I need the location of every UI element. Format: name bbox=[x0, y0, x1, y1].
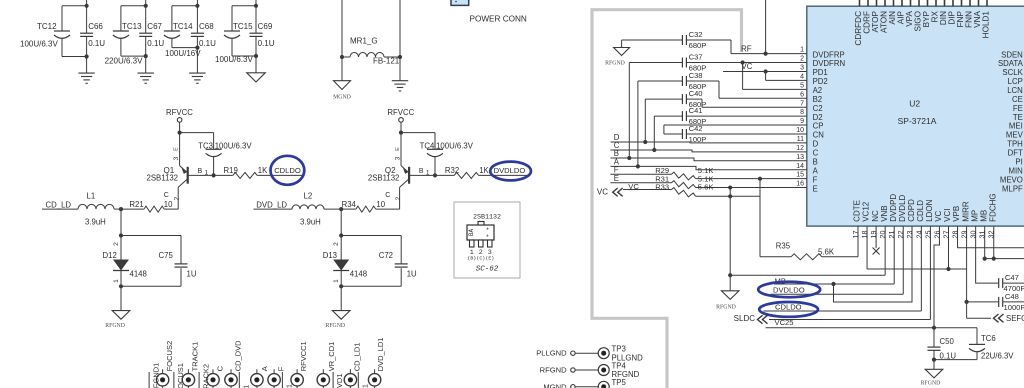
svg-text:3: 3 bbox=[395, 156, 402, 160]
svg-text:21: 21 bbox=[887, 231, 896, 239]
svg-text:(C): (C) bbox=[476, 255, 485, 261]
svg-text:C: C bbox=[385, 192, 390, 199]
svg-text:(B): (B) bbox=[467, 255, 476, 261]
svg-text:VC12: VC12 bbox=[862, 201, 871, 222]
svg-text:TC3: TC3 bbox=[198, 141, 213, 150]
svg-text:L1: L1 bbox=[87, 192, 96, 201]
svg-text:MIRR: MIRR bbox=[961, 201, 970, 222]
svg-text:C37: C37 bbox=[689, 53, 703, 62]
svg-text:POWER CONN: POWER CONN bbox=[470, 14, 527, 23]
svg-text:TC6: TC6 bbox=[981, 334, 996, 343]
svg-text:2SB1132: 2SB1132 bbox=[368, 174, 400, 183]
svg-text:100U/6.3V: 100U/6.3V bbox=[215, 55, 253, 64]
svg-text:CD_LD: CD_LD bbox=[46, 200, 72, 209]
svg-text:1K: 1K bbox=[479, 166, 489, 175]
svg-text:20: 20 bbox=[878, 231, 887, 239]
svg-text:B: B bbox=[198, 168, 203, 175]
svg-text:DVDLDO: DVDLDO bbox=[494, 166, 526, 175]
svg-text:9: 9 bbox=[800, 118, 804, 125]
svg-text:DVD_LD: DVD_LD bbox=[256, 200, 287, 209]
svg-text:MIN: MIN bbox=[1009, 166, 1023, 175]
svg-text:MR1_G: MR1_G bbox=[350, 37, 378, 46]
svg-text:B: B bbox=[419, 168, 424, 175]
svg-text:MEVO: MEVO bbox=[1000, 175, 1023, 184]
svg-text:SLDC: SLDC bbox=[734, 314, 756, 323]
svg-text:28: 28 bbox=[950, 231, 959, 239]
svg-text:100U/6.3V: 100U/6.3V bbox=[436, 141, 474, 150]
svg-text:VR_CD1: VR_CD1 bbox=[327, 342, 336, 372]
svg-text:RFVCC1: RFVCC1 bbox=[299, 341, 308, 371]
svg-text:VC: VC bbox=[742, 62, 753, 71]
svg-text:TPH: TPH bbox=[1007, 140, 1023, 149]
svg-text:DVDFRN: DVDFRN bbox=[813, 59, 846, 68]
svg-text:0.1U: 0.1U bbox=[258, 39, 275, 48]
svg-text:15: 15 bbox=[796, 172, 804, 179]
svg-text:TP3: TP3 bbox=[612, 345, 626, 354]
svg-text:MEI: MEI bbox=[1009, 122, 1023, 131]
svg-text:C32: C32 bbox=[689, 30, 703, 39]
svg-text:5.6K: 5.6K bbox=[698, 182, 714, 191]
svg-text:C: C bbox=[216, 365, 225, 371]
svg-text:C67: C67 bbox=[147, 22, 162, 31]
svg-text:R33: R33 bbox=[655, 182, 669, 191]
svg-text:SEFG: SEFG bbox=[1006, 314, 1024, 323]
svg-text:TE: TE bbox=[1013, 113, 1023, 122]
svg-text:HOLD1: HOLD1 bbox=[982, 11, 991, 39]
svg-text:8: 8 bbox=[800, 109, 804, 116]
svg-text:1: 1 bbox=[426, 169, 430, 176]
svg-text:6: 6 bbox=[800, 91, 804, 98]
svg-text:5: 5 bbox=[800, 82, 804, 89]
svg-text:3.9uH: 3.9uH bbox=[300, 217, 321, 226]
svg-text:C1: C1 bbox=[285, 384, 294, 388]
svg-text:C2: C2 bbox=[813, 104, 823, 113]
svg-text:16: 16 bbox=[796, 181, 804, 188]
svg-text:220U/6.3V: 220U/6.3V bbox=[105, 56, 143, 65]
svg-text:D13: D13 bbox=[323, 251, 337, 260]
svg-text:RFGND: RFGND bbox=[921, 380, 941, 386]
svg-text:PI: PI bbox=[1015, 157, 1022, 166]
svg-text:CD_DVD: CD_DVD bbox=[233, 340, 242, 371]
svg-text:3: 3 bbox=[173, 156, 180, 160]
svg-text:18: 18 bbox=[860, 231, 869, 239]
svg-text:D12: D12 bbox=[103, 251, 117, 260]
svg-text:C38: C38 bbox=[689, 71, 703, 80]
svg-text:RFGND: RFGND bbox=[716, 305, 736, 311]
svg-text:3.9uH: 3.9uH bbox=[85, 217, 106, 226]
svg-text:4148: 4148 bbox=[350, 269, 367, 278]
svg-text:5.6K: 5.6K bbox=[818, 248, 835, 257]
svg-text:E: E bbox=[174, 147, 180, 151]
svg-text:CDLD: CDLD bbox=[916, 200, 925, 222]
svg-text:29: 29 bbox=[960, 231, 969, 239]
svg-text:12: 12 bbox=[796, 145, 804, 152]
svg-text:RFGND: RFGND bbox=[605, 61, 625, 67]
svg-text:1U: 1U bbox=[187, 270, 197, 279]
svg-text:CDTE: CDTE bbox=[853, 200, 862, 222]
svg-text:C69: C69 bbox=[258, 22, 273, 31]
svg-text:13: 13 bbox=[796, 154, 804, 161]
svg-text:CDLDO: CDLDO bbox=[274, 166, 301, 175]
svg-text:FOCUS1: FOCUS1 bbox=[176, 363, 185, 388]
svg-text:DVDPD: DVDPD bbox=[889, 194, 898, 222]
svg-text:PLLGND: PLLGND bbox=[536, 349, 567, 358]
svg-text:2: 2 bbox=[174, 196, 181, 200]
svg-text:2: 2 bbox=[113, 242, 120, 246]
svg-text:(E): (E) bbox=[485, 255, 494, 261]
svg-text:DFT: DFT bbox=[1008, 149, 1023, 158]
svg-text:B2: B2 bbox=[813, 95, 823, 104]
svg-text:C: C bbox=[813, 149, 819, 158]
svg-text:TP4: TP4 bbox=[612, 361, 627, 370]
svg-text:CDPD: CDPD bbox=[907, 199, 916, 222]
svg-text:17: 17 bbox=[851, 231, 860, 239]
svg-text:*: * bbox=[486, 234, 490, 241]
svg-text:RFGND: RFGND bbox=[105, 323, 125, 329]
svg-text:2: 2 bbox=[395, 196, 402, 200]
svg-text:SDEN: SDEN bbox=[1001, 50, 1023, 59]
svg-text:100U/16V: 100U/16V bbox=[165, 49, 201, 58]
svg-text:22U/6.3V: 22U/6.3V bbox=[981, 352, 1014, 361]
svg-text:A: A bbox=[813, 166, 819, 175]
svg-text:F: F bbox=[813, 175, 818, 184]
svg-text:MLPF: MLPF bbox=[1002, 184, 1023, 193]
svg-text:1: 1 bbox=[333, 279, 340, 283]
svg-text:1U: 1U bbox=[407, 270, 417, 279]
svg-text:2: 2 bbox=[333, 242, 340, 246]
svg-text:NC: NC bbox=[871, 210, 880, 222]
svg-text:A2: A2 bbox=[813, 86, 823, 95]
svg-text:22: 22 bbox=[896, 231, 905, 239]
svg-text:680P: 680P bbox=[689, 41, 707, 50]
svg-text:25: 25 bbox=[923, 231, 932, 239]
svg-text:VC: VC bbox=[628, 182, 639, 191]
svg-text:DVD_LD1: DVD_LD1 bbox=[376, 338, 385, 372]
svg-text:F: F bbox=[276, 366, 285, 371]
svg-text:D2: D2 bbox=[813, 113, 823, 122]
svg-text:C75: C75 bbox=[159, 251, 174, 260]
svg-text:RFVCC: RFVCC bbox=[166, 108, 193, 117]
svg-text:RFGND: RFGND bbox=[540, 366, 568, 375]
svg-text:26: 26 bbox=[932, 231, 941, 239]
svg-text:1: 1 bbox=[113, 279, 120, 283]
svg-text:C41: C41 bbox=[689, 106, 703, 115]
svg-text:C40: C40 bbox=[689, 89, 703, 98]
svg-text:11: 11 bbox=[797, 136, 804, 143]
svg-text:C48: C48 bbox=[1005, 292, 1019, 301]
svg-text:R21: R21 bbox=[129, 200, 143, 209]
svg-text:C66: C66 bbox=[88, 22, 103, 31]
svg-text:7: 7 bbox=[800, 100, 804, 107]
svg-text:10: 10 bbox=[164, 200, 173, 209]
svg-text:CD_LD1: CD_LD1 bbox=[352, 343, 361, 372]
svg-text:DVD1: DVD1 bbox=[335, 373, 344, 388]
svg-text:0.1U: 0.1U bbox=[88, 39, 105, 48]
svg-text:RFGND1: RFGND1 bbox=[151, 363, 160, 388]
svg-text:MEV: MEV bbox=[1006, 131, 1024, 140]
svg-text:R35: R35 bbox=[776, 242, 791, 251]
svg-text:0.1U: 0.1U bbox=[147, 39, 164, 48]
svg-text:14: 14 bbox=[796, 163, 804, 170]
svg-text:30: 30 bbox=[969, 231, 978, 239]
svg-text:19: 19 bbox=[869, 231, 878, 239]
svg-text:100U/6.3V: 100U/6.3V bbox=[20, 40, 58, 49]
svg-text:27: 27 bbox=[941, 231, 950, 239]
svg-text:TRACK1: TRACK1 bbox=[191, 342, 200, 372]
svg-text:D1: D1 bbox=[361, 384, 370, 388]
svg-text:VC25: VC25 bbox=[775, 318, 794, 327]
svg-text:VC: VC bbox=[597, 187, 608, 196]
svg-text:BA: BA bbox=[468, 229, 475, 237]
svg-text:0.1U: 0.1U bbox=[199, 39, 216, 48]
svg-text:2SB1132: 2SB1132 bbox=[473, 214, 501, 222]
svg-text:SC-62: SC-62 bbox=[476, 266, 499, 274]
svg-text:SP-3721A: SP-3721A bbox=[898, 116, 937, 126]
svg-text:10: 10 bbox=[796, 127, 804, 134]
svg-text:DVDLDO: DVDLDO bbox=[773, 285, 805, 294]
svg-text:DVDLD: DVDLD bbox=[898, 194, 907, 221]
svg-text:TC15: TC15 bbox=[233, 22, 253, 31]
svg-text:E: E bbox=[614, 174, 619, 183]
svg-text:FB-121: FB-121 bbox=[373, 56, 400, 65]
svg-text:PD2: PD2 bbox=[813, 77, 828, 86]
svg-text:TC4: TC4 bbox=[420, 141, 435, 150]
svg-text:LCN: LCN bbox=[1007, 86, 1023, 95]
svg-text:100U/6.3V: 100U/6.3V bbox=[215, 141, 253, 150]
svg-text:31: 31 bbox=[978, 231, 987, 239]
svg-text:MGND: MGND bbox=[543, 382, 567, 388]
svg-text:A: A bbox=[260, 366, 269, 371]
svg-text:TP5: TP5 bbox=[612, 378, 627, 387]
svg-text:VC: VC bbox=[934, 210, 943, 221]
svg-text:VCI: VCI bbox=[943, 208, 952, 221]
svg-text:E: E bbox=[395, 147, 401, 151]
svg-text:C68: C68 bbox=[199, 22, 214, 31]
svg-text:32: 32 bbox=[987, 231, 996, 239]
svg-text:R19: R19 bbox=[224, 166, 238, 175]
svg-text:1: 1 bbox=[205, 169, 209, 176]
svg-text:C: C bbox=[164, 192, 169, 199]
svg-text:L2: L2 bbox=[304, 192, 313, 201]
svg-text:TC14: TC14 bbox=[173, 22, 193, 31]
svg-text:FOCUS2: FOCUS2 bbox=[165, 341, 174, 371]
svg-text:MP: MP bbox=[970, 210, 979, 222]
svg-text:R34: R34 bbox=[342, 200, 357, 209]
svg-text:C47: C47 bbox=[1005, 273, 1019, 282]
svg-text:0.1U: 0.1U bbox=[940, 351, 957, 360]
svg-text:MB: MB bbox=[979, 210, 988, 222]
svg-text:2: 2 bbox=[800, 56, 804, 63]
svg-text:C72: C72 bbox=[379, 251, 393, 260]
svg-text:FE: FE bbox=[1013, 104, 1023, 113]
svg-text:4148: 4148 bbox=[130, 269, 147, 278]
svg-text:R32: R32 bbox=[445, 166, 459, 175]
svg-text:VPB: VPB bbox=[952, 206, 961, 222]
svg-text:1K: 1K bbox=[258, 166, 268, 175]
svg-text:1000P: 1000P bbox=[1004, 303, 1024, 312]
svg-text:SCLK: SCLK bbox=[1002, 68, 1023, 77]
svg-text:VNB: VNB bbox=[880, 205, 889, 221]
svg-text:TC12: TC12 bbox=[37, 22, 57, 31]
svg-text:RFVCC: RFVCC bbox=[387, 108, 414, 117]
svg-text:*: * bbox=[486, 227, 490, 234]
svg-text:3: 3 bbox=[800, 65, 804, 72]
svg-text:1: 1 bbox=[800, 47, 804, 54]
svg-text:LCP: LCP bbox=[1008, 77, 1023, 86]
svg-text:U2: U2 bbox=[909, 99, 920, 109]
svg-text:CN: CN bbox=[813, 131, 824, 140]
svg-text:10: 10 bbox=[376, 200, 385, 209]
svg-text:CP: CP bbox=[813, 122, 824, 131]
svg-text:C50: C50 bbox=[940, 337, 955, 346]
svg-text:DVDFRP: DVDFRP bbox=[813, 50, 845, 59]
svg-text:RF: RF bbox=[741, 45, 752, 54]
svg-text:RFGND: RFGND bbox=[325, 323, 345, 329]
svg-text:D: D bbox=[813, 140, 819, 149]
svg-text:FDCHG: FDCHG bbox=[988, 193, 997, 221]
svg-text:LDON: LDON bbox=[925, 199, 934, 221]
svg-text:SDATA: SDATA bbox=[998, 59, 1024, 68]
svg-text:TC13: TC13 bbox=[122, 22, 142, 31]
svg-text:4: 4 bbox=[800, 73, 804, 80]
svg-text:TRACK2: TRACK2 bbox=[201, 364, 210, 388]
svg-text:23: 23 bbox=[905, 231, 914, 239]
svg-text:PD1: PD1 bbox=[813, 68, 828, 77]
svg-text:E: E bbox=[813, 184, 818, 193]
svg-text:2SB1132: 2SB1132 bbox=[147, 174, 179, 183]
svg-text:CE: CE bbox=[1012, 95, 1023, 104]
svg-text:B: B bbox=[813, 157, 818, 166]
svg-text:MGND: MGND bbox=[333, 95, 351, 101]
svg-text:24: 24 bbox=[914, 231, 923, 239]
